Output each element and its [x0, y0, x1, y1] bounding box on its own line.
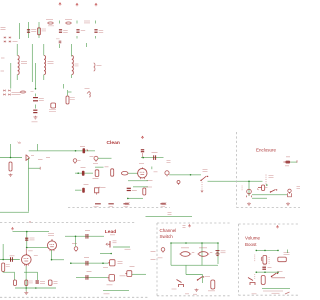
capacitor C7 — [33, 110, 37, 112]
section label Lead — [105, 229, 116, 235]
power flag PWR3 — [95, 3, 97, 6]
capacitor C1 value text — [31, 30, 36, 32]
wire secondary right stub — [71, 44, 73, 78]
potentiometer VR3 — [108, 260, 115, 266]
capacitor C14 — [25, 238, 28, 240]
wire Vp stub lead — [2, 244, 4, 260]
tube V1 right text — [154, 171, 158, 173]
wire boost rail bottom — [255, 271, 278, 273]
svg-text:Enclosure: Enclosure — [256, 147, 277, 152]
wire C17 drop — [37, 272, 39, 280]
wire Vp rail — [0, 157, 22, 159]
svg-text:Volume: Volume — [245, 236, 261, 241]
branch end tick — [39, 167, 41, 170]
net label AC text — [1, 28, 6, 30]
capacitor C5 — [59, 41, 62, 43]
ground text 2 — [193, 293, 197, 295]
jack J2 — [94, 156, 98, 161]
wire emitter down — [28, 158, 30, 212]
resistor R1 — [38, 28, 41, 35]
pot VR1 text — [105, 166, 109, 168]
bottom text vb2 — [272, 292, 280, 294]
potentiometer VR4 sub text — [107, 284, 113, 286]
wire J5 gnd link — [252, 197, 267, 199]
jack J2 label text — [90, 156, 94, 158]
potentiometer VR1 text — [93, 178, 99, 180]
transformer T2 winding D — [94, 63, 95, 71]
potentiometer VR3 text — [118, 262, 123, 264]
jack J3 top text — [167, 161, 171, 163]
ground GND4 — [286, 202, 290, 205]
switch SW4 text — [278, 271, 283, 273]
capacitor C3 value text — [81, 30, 86, 32]
tube V2 plate pin — [51, 239, 53, 241]
wire J2 out — [98, 157, 112, 159]
wire relay mid — [201, 243, 203, 265]
resistor R7 — [143, 188, 146, 195]
capacitor C14 text — [30, 238, 35, 240]
wire stub row0 — [100, 253, 112, 255]
jack J4 bottom text — [285, 165, 289, 167]
switch SW1 linkage — [201, 182, 203, 190]
wire B+ drop — [37, 144, 39, 151]
net label Vp text — [18, 141, 22, 145]
enclosure box dashed left edge — [236, 132, 238, 208]
wire lead gnd bus — [15, 287, 56, 289]
pot VR2 — [288, 189, 292, 197]
diode D1 label text — [84, 21, 90, 23]
battery BT1 text — [221, 251, 226, 253]
power port mark 4 — [160, 204, 165, 207]
fuse F2 value text — [65, 19, 72, 21]
wire cathode out — [51, 259, 64, 261]
capacitor C9 bottom stub — [142, 153, 144, 157]
capacitor C18 text — [84, 257, 89, 259]
wire SW1 out — [208, 181, 263, 183]
wire fsw drop — [185, 265, 187, 274]
transformer T1 winding A — [18, 56, 20, 75]
potentiometer VR7 texts — [113, 241, 117, 243]
relay pin marks — [183, 226, 186, 228]
transformer T2 winding E text — [85, 88, 90, 90]
resistor R5 oval — [121, 171, 128, 175]
capacitor C11 text — [81, 167, 86, 169]
bottom text vb1 — [252, 293, 257, 295]
wire J3 to SW1 — [169, 174, 201, 176]
capacitor C4 — [94, 30, 97, 32]
channel box dashed left edge — [156, 223, 158, 296]
wire bypass — [133, 186, 148, 188]
jack J6 top text — [72, 243, 77, 245]
net arrow mark — [87, 91, 90, 94]
jack J1 — [73, 159, 77, 164]
wire stub node VIN2 — [76, 21, 78, 24]
ground GND5 — [195, 289, 199, 292]
wire node A rail — [141, 157, 164, 159]
battery BT1 — [216, 251, 220, 256]
half arrow mark — [285, 292, 290, 294]
capacitor C20 text — [268, 267, 272, 269]
wire B+ rail — [29, 150, 95, 152]
tube V3 — [22, 254, 32, 266]
resistor R2 value text — [70, 98, 75, 100]
edge text marks — [297, 187, 301, 189]
potentiometer VR5 — [125, 271, 132, 277]
wire center tap — [35, 63, 37, 90]
wire J5 drop — [248, 181, 250, 196]
tube V1 — [138, 167, 147, 179]
capacitor C17 text — [40, 282, 45, 284]
wire cap C1 net — [28, 22, 30, 38]
channel box dashed bottom edge — [157, 295, 232, 297]
capacitor C13 — [127, 188, 131, 190]
resistor R6 text — [101, 187, 106, 189]
capacitor C6 value text — [39, 99, 44, 101]
bottom text lead — [104, 293, 110, 295]
potentiometer VR4 text — [120, 275, 126, 277]
potentiometer VR7 — [106, 241, 110, 248]
capacitor C19 on wire — [86, 275, 88, 280]
resistor R8 — [2, 263, 5, 272]
relay K1 mark — [192, 252, 195, 254]
lead box dashed bottom edge — [0, 296, 148, 298]
section label Channel — [160, 228, 177, 233]
wire boost rail top — [255, 250, 278, 252]
power flag A2 — [188, 225, 190, 228]
transistor Q1 — [26, 155, 30, 162]
wire to switch lower — [146, 216, 193, 218]
svg-text:Clean: Clean — [107, 140, 120, 146]
switch SW4 — [271, 273, 279, 278]
transformer T2 winding D text — [97, 65, 102, 67]
capacitor C12 on wire — [82, 188, 85, 193]
wire VR5 out — [132, 273, 146, 275]
capacitor C10 text — [152, 152, 158, 154]
wire VR7 out — [113, 246, 130, 248]
wire J5 out — [252, 194, 287, 196]
capacitor C8 text — [80, 146, 85, 148]
regulator U2 — [51, 103, 56, 108]
wire secondary left — [43, 44, 45, 80]
wire stub C5 — [59, 44, 61, 48]
tube V2 ref text — [48, 234, 54, 236]
transformer T1 winding A text — [21, 62, 27, 64]
wire V2 cathode — [51, 250, 53, 260]
wire grid rail V2 — [26, 247, 48, 249]
capacitor C8 on rail — [83, 148, 86, 153]
edge text DC — [151, 251, 156, 253]
switch SW2 linkage dot — [266, 184, 268, 186]
jack J4 output — [283, 161, 290, 164]
potentiometer VR6 text — [269, 258, 270, 264]
jack J7 — [211, 280, 215, 289]
svg-text:Switch: Switch — [160, 234, 174, 239]
switch SW2 top text — [269, 176, 274, 178]
tube ref text — [146, 186, 152, 188]
capacitor C17 — [36, 281, 39, 283]
jack J5 — [247, 189, 252, 197]
battery holder BT2 — [278, 257, 287, 262]
power port mark 2 — [108, 204, 113, 207]
svg-text:Vp: Vp — [18, 141, 22, 145]
switch SW1 — [200, 176, 208, 181]
diode bridge D2 D3 D4 D5 — [4, 37, 11, 43]
potentiometer VR1 — [95, 170, 99, 177]
tube V3 cathode pin — [25, 265, 27, 267]
fuse F1 ref text — [48, 25, 54, 27]
switch SW3 text — [205, 276, 210, 278]
capacitor C8 tick — [87, 149, 88, 151]
transistor Q1 label text — [38, 159, 43, 161]
switch SW2 — [270, 189, 278, 193]
channel box dashed top edge — [157, 222, 232, 224]
wire boost out — [262, 288, 290, 290]
enclosure box dashed bottom edge — [237, 207, 301, 209]
side text vb2 — [254, 275, 255, 279]
resistor R2 — [66, 96, 69, 104]
capacitor C12 text — [84, 184, 89, 186]
edge text AC — [151, 259, 156, 261]
ground GND3 — [247, 202, 251, 205]
capacitor C20 — [262, 267, 266, 269]
net stub C text — [46, 157, 50, 159]
tube V1 top text — [139, 163, 144, 165]
wire grid feed — [75, 172, 93, 174]
battery holder BT2 text — [284, 253, 290, 255]
transformer T1 winding B text — [48, 62, 54, 64]
wire tap stub — [63, 84, 65, 89]
capacitor C15 text — [10, 255, 15, 257]
wire relay bus bottom — [171, 264, 218, 266]
transformer T1 winding C — [72, 56, 74, 75]
relay driver text — [158, 257, 163, 259]
wire cathode gnd — [127, 198, 143, 200]
jack J3 — [165, 171, 169, 177]
relay K2 — [198, 252, 210, 257]
wire heater link — [68, 91, 72, 93]
fuse F1 — [47, 22, 54, 24]
potentiometer VR6 — [261, 256, 266, 265]
jack J6 stub — [75, 236, 77, 246]
resistor R2 stub — [67, 90, 69, 96]
wire sig row2 — [76, 276, 108, 278]
resistor R6 — [95, 187, 101, 194]
volume box dashed left edge — [238, 224, 240, 295]
net label text left — [125, 203, 130, 205]
wire bt2 stub — [287, 250, 289, 254]
wire C6 to C7 — [35, 105, 37, 109]
transformer T1 winding C text — [75, 64, 79, 66]
lead box dashed top edge — [0, 222, 135, 224]
wire boost gnd — [263, 290, 283, 292]
resistor R9 — [14, 280, 17, 286]
wire tick below C4 — [95, 36, 97, 39]
ground mark SW1 — [201, 191, 204, 193]
wire lead drop — [26, 232, 28, 248]
tube V3 plate pin — [25, 249, 27, 255]
diode D6 D7 D8 D9 — [3, 90, 10, 96]
capacitor C21 text — [85, 230, 90, 232]
wire primary left — [16, 44, 18, 80]
fuse F1 value text — [46, 19, 53, 21]
wire R5 to V1 — [128, 172, 138, 174]
wire drop to rectifier — [10, 63, 12, 89]
clean box dashed bottom edge — [68, 207, 170, 209]
wire R8 corner — [3, 272, 14, 281]
transformer T1 winding B — [44, 56, 46, 75]
power port mark 1 — [94, 204, 101, 207]
tube V2 — [48, 240, 57, 251]
resistor R3 — [9, 162, 12, 171]
lamp DS1 text — [31, 91, 34, 93]
wire plate feed V2 — [65, 236, 104, 238]
capacitor C4 value text — [99, 31, 104, 33]
wire V3 in — [0, 259, 20, 261]
svg-text:Boost: Boost — [245, 242, 257, 247]
regulator U2 text — [49, 110, 56, 112]
ground GND6 — [24, 291, 28, 294]
footswitch FS1 — [177, 280, 184, 288]
wire tick below C3 — [76, 36, 78, 39]
wire J4 end tick — [296, 160, 298, 162]
potentiometer VR7 label text — [125, 248, 131, 250]
wire lead in — [13, 231, 50, 233]
capacitor C2 value text — [63, 31, 67, 33]
wire fsw drop2 — [202, 275, 204, 284]
jack J2 sub text — [93, 163, 98, 165]
power port mark lead — [11, 228, 13, 231]
wire Vp drop — [10, 144, 12, 158]
tube V3 ref text — [34, 255, 38, 257]
capacitor C15 on wire — [11, 257, 13, 262]
relay driver Q2 — [161, 248, 165, 253]
capacitor C5 text — [56, 38, 60, 40]
capacitor C3 — [76, 30, 79, 32]
wire relay left — [170, 243, 172, 265]
ground GND2 — [9, 174, 13, 177]
side text vb1 — [254, 255, 255, 261]
switch SW3 — [197, 276, 205, 281]
relay K1 — [180, 252, 192, 257]
power flag A1 — [141, 136, 143, 139]
wire primary mid — [31, 44, 33, 82]
wire J4 out — [290, 161, 297, 163]
capacitor C1 — [27, 30, 30, 32]
jack J7 text — [208, 290, 215, 292]
power flag PWR2 — [76, 3, 78, 6]
tube V3 plate text — [28, 250, 33, 252]
footswitch FS1 text — [172, 288, 177, 290]
pole P1 — [177, 181, 180, 185]
wire V1 plate tick — [151, 167, 153, 170]
wire stub node VIN1 — [59, 21, 61, 24]
wire heater stub — [86, 43, 88, 47]
svg-text:Lead: Lead — [105, 229, 116, 235]
net marks below dash — [168, 213, 172, 215]
capacitor C13 text — [132, 190, 137, 192]
wire cathode branch — [24, 271, 38, 273]
wire bottom rail 2 — [103, 290, 129, 292]
relay K1 text — [181, 247, 189, 249]
wire fsw link — [186, 274, 203, 276]
potentiometer VR4 — [108, 275, 115, 281]
ground GND1 text — [32, 121, 38, 123]
wire pot stub — [95, 166, 104, 168]
jack J8 — [261, 276, 265, 285]
jack J1 text — [78, 160, 81, 162]
capacitor C9 — [141, 150, 144, 152]
capacitor C2 — [59, 30, 62, 32]
text under VR3 — [103, 267, 108, 269]
resistor R8 text — [6, 265, 10, 267]
resistor R10 — [25, 280, 28, 286]
power flag PWR1 — [59, 3, 61, 6]
marks above C20 — [263, 264, 267, 266]
wire resistor R1 net — [38, 22, 40, 38]
jack J4 top text — [286, 156, 290, 158]
wire relay right — [217, 243, 219, 264]
transistor Q1 pin text — [31, 155, 34, 157]
ground GND1 — [33, 116, 37, 119]
jack J5 side text — [242, 186, 243, 190]
relay K2 mark — [210, 252, 213, 254]
power flag A3 — [276, 226, 278, 229]
wire stub node VIN3 — [95, 21, 97, 24]
switch SW1 text — [203, 170, 208, 172]
connector X2 — [48, 280, 57, 285]
wire sig row1 — [70, 262, 109, 264]
resistor R10 text — [29, 281, 33, 283]
section label Clean — [107, 140, 120, 146]
jack J6 — [74, 247, 78, 252]
socket X1 — [257, 185, 265, 191]
wire bus left — [19, 23, 21, 39]
fuse F3 — [20, 91, 26, 93]
capacitor C6 — [33, 98, 38, 101]
tube V1 ref text — [147, 180, 153, 182]
section label Switch — [160, 234, 174, 239]
section label Boost — [245, 242, 257, 247]
diode bridge label text — [13, 41, 18, 43]
winding label text 2 — [1, 70, 5, 72]
capacitor C19 text — [87, 271, 92, 273]
capacitor C10 — [154, 155, 156, 160]
wire V3 cathode down — [25, 266, 27, 291]
power port mark 3 — [123, 204, 128, 207]
potentiometer VR7 top text — [110, 234, 115, 236]
diode labels text — [12, 93, 21, 95]
relay K2 text — [199, 247, 207, 249]
volume box dashed bottom edge — [239, 294, 301, 296]
transformer T2 winding E — [89, 92, 90, 97]
ground text 1 — [185, 293, 189, 295]
footswitch FS2 — [248, 278, 255, 286]
capacitor C21 on wire — [86, 234, 88, 239]
switch SW4 throw — [272, 277, 286, 279]
wire emitter branch — [29, 167, 41, 169]
svg-text:Channel: Channel — [160, 228, 177, 233]
capacitor C6 stub top — [35, 94, 37, 97]
switch SW2 linkage — [265, 175, 267, 185]
resistor R4 — [111, 169, 114, 176]
resistor R1 value text — [42, 29, 47, 31]
capacitor C18 on wire — [86, 261, 88, 266]
volume box dashed top edge — [239, 223, 301, 225]
socket X1 marks — [265, 187, 267, 189]
capacitor C11 on wire — [82, 171, 85, 176]
lead box top mark — [29, 221, 30, 222]
potentiometer VR5 text — [130, 266, 135, 268]
